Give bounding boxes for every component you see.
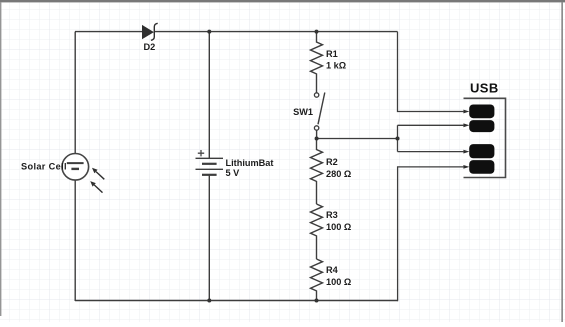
wire SW1 junction to USB column <box>317 138 398 140</box>
resistor R3 <box>311 204 323 259</box>
svg-text:Solar Cell: Solar Cell <box>21 161 67 171</box>
wire top rail left segment <box>75 31 142 33</box>
wire to USB pin 2 and pin 3 <box>398 125 464 151</box>
battery LithiumBat plates <box>196 158 224 175</box>
svg-text:R3: R3 <box>326 210 338 220</box>
junction R4 bottom <box>315 299 319 303</box>
svg-text:R2: R2 <box>326 157 338 167</box>
battery plus sign <box>198 150 204 156</box>
svg-text:R4: R4 <box>326 265 339 275</box>
wire left vertical (solar cell branch) <box>74 32 76 301</box>
wire top rail right segment <box>154 31 397 33</box>
switch SW1 <box>314 93 324 139</box>
svg-text:USB: USB <box>470 80 499 95</box>
resistor R4 <box>311 259 323 301</box>
resistor R1 <box>311 32 323 93</box>
junction USB branch <box>396 137 400 141</box>
svg-text:1 kΩ: 1 kΩ <box>326 61 346 71</box>
battery LithiumBat vertical leads <box>208 32 210 301</box>
junction R1 top <box>315 30 319 34</box>
frame right border <box>561 2 563 322</box>
svg-text:R1: R1 <box>326 49 338 59</box>
resistor R2 <box>311 139 323 205</box>
wire to USB pin 1 <box>398 32 464 112</box>
svg-text:D2: D2 <box>144 42 156 52</box>
svg-text:100 Ω: 100 Ω <box>326 277 351 287</box>
wire bottom rail <box>75 300 398 302</box>
USB pin 1 <box>469 105 494 119</box>
USB pin 3 <box>469 144 494 158</box>
junction battery bottom <box>207 299 211 303</box>
arrow to pin 3 <box>463 150 469 154</box>
junction SW1 bottom <box>315 137 319 141</box>
arrow to pin 4 <box>463 165 469 169</box>
wire to USB pin 4 <box>398 167 464 301</box>
svg-text:280 Ω: 280 Ω <box>326 169 351 179</box>
svg-text:SW1: SW1 <box>293 107 313 117</box>
arrow to pin 2 <box>463 123 469 127</box>
frame left border <box>0 2 1 316</box>
solar cell PV1 <box>62 154 104 193</box>
junction battery top <box>207 30 211 34</box>
USB pin 2 <box>469 120 494 132</box>
svg-text:5 V: 5 V <box>226 168 241 178</box>
arrow to pin 1 <box>463 110 469 114</box>
USB connector bracket <box>464 98 506 177</box>
frame top border <box>0 0 565 2</box>
svg-text:100 Ω: 100 Ω <box>326 222 351 232</box>
diode D2 (schottky) <box>142 23 158 40</box>
USB pin 4 <box>469 160 494 174</box>
svg-text:LithiumBat: LithiumBat <box>226 158 274 168</box>
